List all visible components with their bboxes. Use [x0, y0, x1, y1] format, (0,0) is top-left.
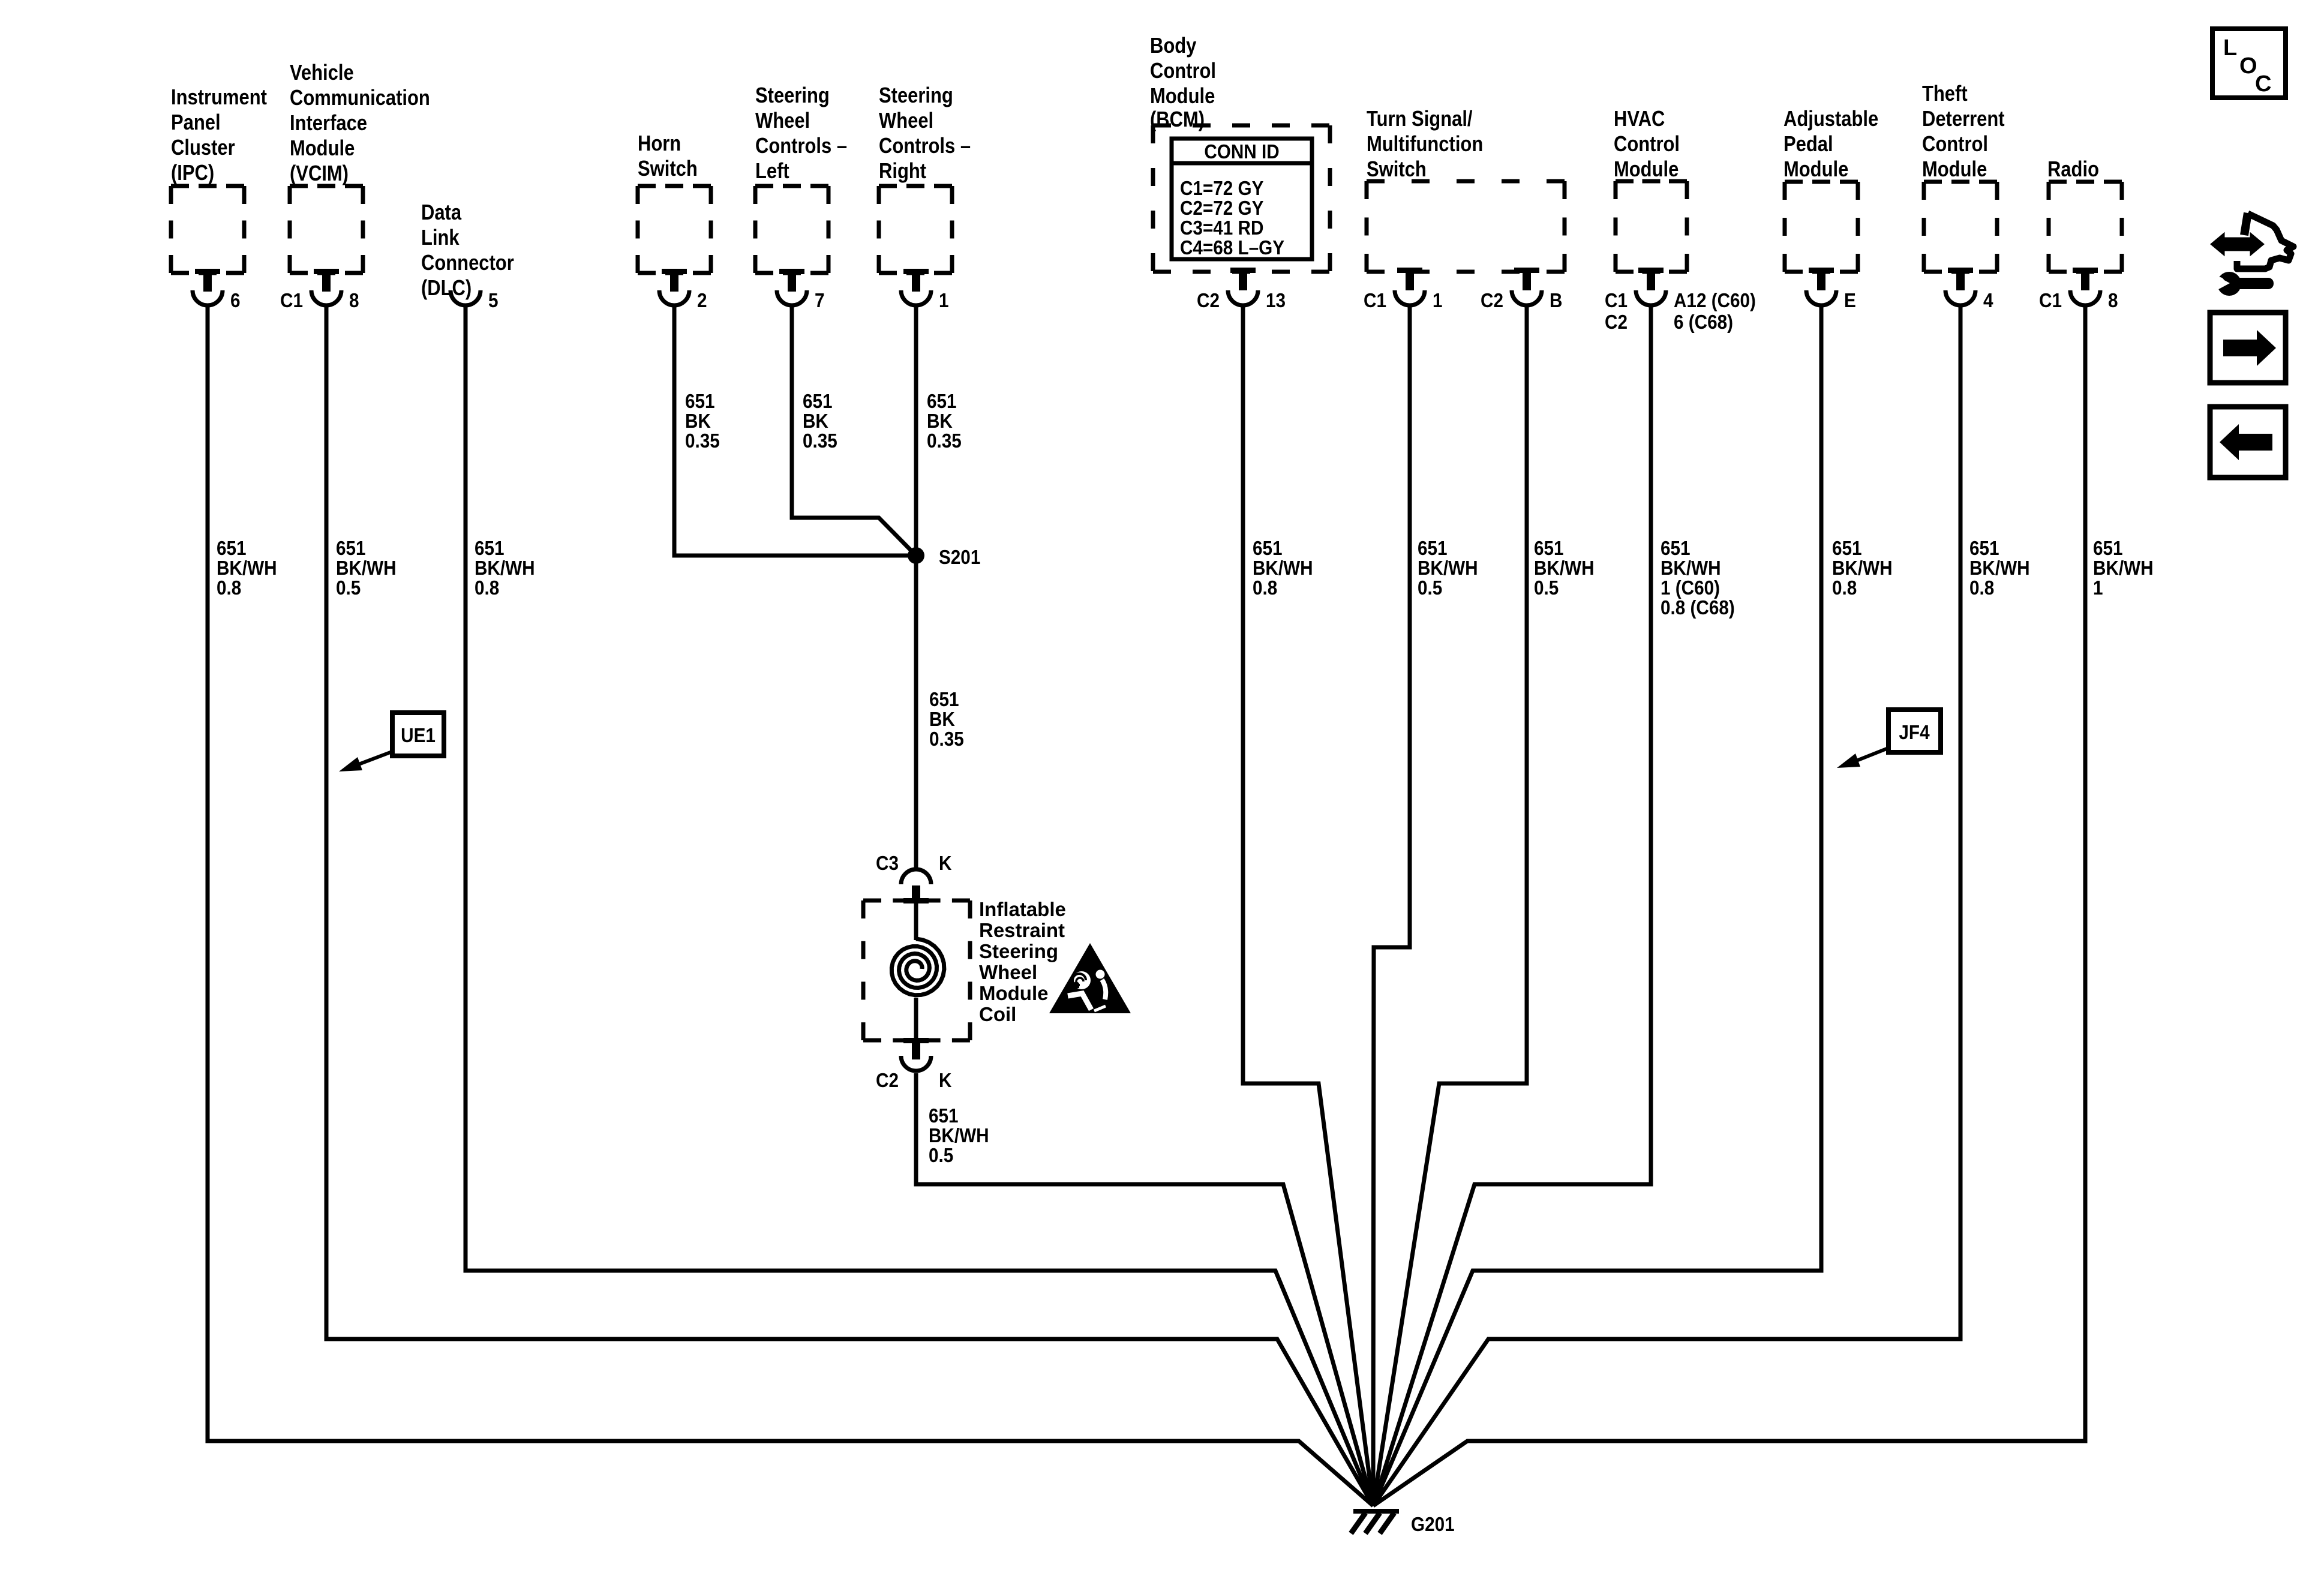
- svg-text:1: 1: [2093, 577, 2103, 599]
- svg-text:Instrument: Instrument: [171, 86, 267, 110]
- svg-text:651: 651: [929, 689, 959, 711]
- svg-text:BK: BK: [929, 709, 955, 731]
- svg-text:Control: Control: [1150, 59, 1216, 83]
- svg-text:C1: C1: [1364, 290, 1386, 312]
- svg-text:Module: Module: [979, 982, 1048, 1004]
- svg-text:0.35: 0.35: [927, 430, 962, 452]
- svg-text:Interface: Interface: [290, 112, 367, 136]
- svg-text:Data: Data: [421, 201, 461, 225]
- svg-text:C3: C3: [876, 852, 899, 875]
- svg-text:1 (C60): 1 (C60): [1661, 577, 1720, 599]
- label: Inflatable Restraint Steering Wheel Module Coil: [979, 898, 1066, 1025]
- svg-text:C4=68 L–GY: C4=68 L–GY: [1180, 237, 1284, 259]
- wire Adjustable Pedal to ground bus: [1373, 304, 1821, 1506]
- svg-text:Switch: Switch: [1367, 158, 1427, 182]
- svg-text:1: 1: [1433, 290, 1443, 312]
- wire label 651 BK/WH 0.8 (Adjustable Pedal): [1832, 538, 1893, 599]
- svg-text:0.35: 0.35: [803, 430, 837, 452]
- wire Theft Deterrent to ground bus: [1373, 304, 1960, 1506]
- svg-text:HVAC: HVAC: [1614, 107, 1665, 131]
- right arrow box: [2210, 313, 2286, 383]
- svg-text:BK/WH: BK/WH: [1418, 557, 1478, 580]
- LOC legend box: [2212, 29, 2286, 98]
- svg-text:BK: BK: [685, 410, 711, 433]
- svg-text:651: 651: [1534, 538, 1564, 560]
- svg-text:Pedal: Pedal: [1783, 133, 1833, 157]
- svg-text:Deterrent: Deterrent: [1922, 107, 2005, 131]
- label: Radio: [2047, 158, 2099, 182]
- module box: Instrument Panel Cluster (IPC): [171, 186, 244, 273]
- svg-text:Multifunction: Multifunction: [1367, 133, 1483, 157]
- svg-text:C1: C1: [2039, 290, 2062, 312]
- terminal SWC-Right pin 1: [901, 269, 949, 311]
- label: Turn Signal / Multifunction Switch: [1367, 107, 1483, 182]
- svg-text:651: 651: [927, 391, 957, 413]
- wire label 651 BK/WH 0.5 (VCIM): [336, 538, 397, 599]
- coil spiral: [891, 939, 944, 995]
- wire BCM to ground bus: [1243, 304, 1373, 1506]
- svg-text:BK/WH: BK/WH: [929, 1125, 989, 1147]
- wire DLC to ground bus: [466, 304, 1373, 1506]
- module box: Steering Wheel Controls - Left: [755, 186, 828, 273]
- wire label 651 BK 0.35 (SWC left): [803, 391, 837, 452]
- wire SWC-Right through S201 to C3: [914, 304, 918, 869]
- tag JF4 with arrow: [1837, 710, 1941, 768]
- svg-text:Radio: Radio: [2047, 158, 2099, 182]
- svg-text:Module: Module: [290, 137, 355, 161]
- svg-text:Module: Module: [1150, 85, 1215, 109]
- svg-text:C2: C2: [1481, 290, 1503, 312]
- svg-text:(DLC): (DLC): [421, 277, 472, 301]
- svg-text:Wheel: Wheel: [979, 961, 1037, 983]
- terminal Theft Deterrent pin 4: [1945, 268, 1993, 311]
- svg-text:Control: Control: [1922, 133, 1988, 157]
- svg-text:BK: BK: [927, 410, 953, 433]
- svg-text:BK/WH: BK/WH: [1969, 557, 2030, 580]
- wire Turn Signal C2 to ground: [1373, 304, 1527, 1506]
- svg-text:Link: Link: [421, 226, 460, 250]
- wire label 651 BK/WH 0.8 (IPC): [217, 538, 277, 599]
- terminal Horn Switch pin 2: [659, 269, 707, 311]
- svg-text:651: 651: [336, 538, 366, 560]
- svg-text:0.5: 0.5: [336, 577, 361, 599]
- svg-text:E: E: [1844, 290, 1856, 312]
- svg-text:G201: G201: [1411, 1514, 1455, 1536]
- svg-text:Connector: Connector: [421, 251, 514, 275]
- module box: Vehicle Communication Interface Module (VCIM): [290, 186, 363, 273]
- svg-text:8: 8: [2108, 290, 2118, 312]
- svg-text:Restraint: Restraint: [979, 919, 1065, 941]
- svg-text:Horn: Horn: [638, 132, 681, 156]
- svg-text:7: 7: [815, 290, 825, 312]
- svg-text:Steering: Steering: [755, 84, 830, 108]
- svg-text:C2: C2: [876, 1070, 899, 1092]
- svg-text:C3=41 RD: C3=41 RD: [1180, 217, 1263, 239]
- svg-text:Turn Signal/: Turn Signal/: [1367, 107, 1473, 131]
- module box: Body Control Module (BCM): [1153, 125, 1330, 272]
- terminal SWC-Left pin 7: [777, 269, 825, 311]
- svg-text:Coil: Coil: [979, 1003, 1016, 1025]
- terminal DLC pin 5: [451, 290, 499, 312]
- terminal IPC pin 6: [193, 269, 241, 311]
- wire label 651 BK/WH 0.8 (DLC): [475, 538, 535, 599]
- svg-text:Module: Module: [1783, 158, 1848, 182]
- svg-text:Left: Left: [755, 160, 789, 184]
- wire VCIM to ground bus: [326, 304, 1373, 1506]
- wire label 651 BK 0.35 (SWC right): [927, 391, 962, 452]
- label: Theft Deterrent Control Module: [1922, 82, 2005, 182]
- svg-text:Module: Module: [1614, 158, 1679, 182]
- wire label 651 BK/WH 1 (Radio): [2093, 538, 2154, 599]
- svg-text:4: 4: [1983, 290, 1993, 312]
- svg-text:Controls –: Controls –: [879, 134, 971, 158]
- terminal HVAC C1/C2 pins A12(C60)/6(C68): [1605, 268, 1756, 333]
- svg-text:651: 651: [1832, 538, 1862, 560]
- left arrow box: [2210, 407, 2286, 478]
- label: Instrument Panel Cluster (IPC): [171, 86, 267, 185]
- wire HVAC to ground bus: [1373, 304, 1651, 1506]
- svg-text:L: L: [2223, 35, 2237, 61]
- terminal Adjustable Pedal pin E: [1806, 268, 1856, 311]
- svg-text:BK/WH: BK/WH: [475, 557, 535, 580]
- svg-text:Wheel: Wheel: [879, 109, 933, 133]
- svg-text:651: 651: [1969, 538, 1999, 560]
- svg-text:0.35: 0.35: [685, 430, 720, 452]
- svg-text:Adjustable: Adjustable: [1783, 107, 1878, 131]
- module box: Theft Deterrent Control Module: [1924, 182, 1997, 272]
- module box: Turn Signal / Multifunction Switch: [1367, 181, 1565, 272]
- svg-text:0.5: 0.5: [929, 1145, 953, 1167]
- svg-text:0.8 (C68): 0.8 (C68): [1661, 597, 1735, 619]
- svg-text:C1=72 GY: C1=72 GY: [1180, 178, 1263, 200]
- svg-text:651: 651: [1253, 538, 1283, 560]
- svg-text:Panel: Panel: [171, 111, 221, 135]
- terminal Turn Signal C1 pin 1: [1364, 268, 1442, 311]
- svg-text:651: 651: [803, 391, 833, 413]
- module box: Adjustable Pedal Module: [1785, 182, 1858, 272]
- wire Horn Switch to S201: [674, 304, 916, 556]
- terminal BCM C2 pin 13: [1197, 268, 1286, 311]
- module box: Inflatable Restraint Steering Wheel Module Coil: [863, 900, 970, 1040]
- wire Radio to ground bus: [1373, 304, 2085, 1506]
- svg-text:Communication: Communication: [290, 86, 430, 110]
- connector C3 K (top of coil): [876, 852, 952, 903]
- wire through coil box: [914, 900, 918, 940]
- svg-text:13: 13: [1266, 290, 1286, 312]
- tag UE1 with arrow: [339, 713, 444, 772]
- svg-text:(BCM): (BCM): [1150, 108, 1205, 132]
- wire SWC-Left to S201: [792, 304, 916, 556]
- svg-text:CONN ID: CONN ID: [1204, 141, 1279, 163]
- svg-text:651: 651: [217, 538, 247, 560]
- ground G201: [1351, 1511, 1455, 1535]
- svg-text:C: C: [2255, 71, 2271, 97]
- node S201: [908, 547, 980, 569]
- svg-text:5: 5: [488, 290, 499, 312]
- svg-text:B: B: [1550, 290, 1562, 312]
- svg-text:Vehicle: Vehicle: [290, 61, 354, 85]
- svg-text:6: 6: [230, 290, 241, 312]
- wire IPC to ground bus: [208, 304, 1373, 1506]
- module box: Horn Switch: [638, 186, 711, 273]
- wire label 651 BK/WH 0.5 (coil): [929, 1105, 989, 1167]
- module box: HVAC Control Module: [1616, 181, 1687, 272]
- label: Data Link Connector (DLC): [421, 201, 514, 301]
- terminal Radio C1 pin 8: [2039, 268, 2118, 311]
- svg-text:UE1: UE1: [401, 725, 436, 747]
- wire coil to ground bus: [916, 1073, 1373, 1506]
- label: Body Control Module (BCM): [1150, 34, 1216, 132]
- svg-text:651: 651: [1661, 538, 1691, 560]
- svg-text:Controls –: Controls –: [755, 134, 847, 158]
- svg-text:651: 651: [475, 538, 505, 560]
- label: Horn Switch: [638, 132, 698, 181]
- svg-text:K: K: [939, 1070, 952, 1092]
- svg-text:Control: Control: [1614, 133, 1680, 157]
- svg-text:0.8: 0.8: [1969, 577, 1994, 599]
- CONN ID table: [1172, 139, 1312, 259]
- svg-text:K: K: [939, 852, 952, 875]
- svg-text:0.8: 0.8: [475, 577, 499, 599]
- svg-text:0.8: 0.8: [1253, 577, 1277, 599]
- svg-text:(IPC): (IPC): [171, 161, 214, 185]
- svg-text:651: 651: [1418, 538, 1448, 560]
- wire label 651 BK 0.35 (S201 to coil): [929, 689, 964, 751]
- vehicle + wrench icon: [2212, 213, 2293, 296]
- svg-text:C2: C2: [1605, 311, 1628, 334]
- svg-text:0.35: 0.35: [929, 728, 964, 751]
- label: Steering Wheel Controls - Right: [879, 84, 971, 184]
- svg-text:8: 8: [349, 290, 359, 312]
- svg-text:C2: C2: [1197, 290, 1220, 312]
- svg-text:Steering: Steering: [879, 84, 953, 108]
- svg-text:Module: Module: [1922, 158, 1987, 182]
- svg-text:BK/WH: BK/WH: [1661, 557, 1721, 580]
- label: Steering Wheel Controls - Left: [755, 84, 847, 184]
- connector C2 K (bottom of coil): [876, 1038, 952, 1091]
- terminal VCIM C1 pin 8: [280, 269, 359, 311]
- svg-text:Theft: Theft: [1922, 82, 1968, 106]
- wire label 651 BK 0.35 (horn): [685, 391, 720, 452]
- svg-text:Right: Right: [879, 160, 926, 184]
- svg-text:Inflatable: Inflatable: [979, 898, 1066, 920]
- svg-text:(VCIM): (VCIM): [290, 162, 349, 186]
- module box: Radio: [2049, 182, 2122, 272]
- svg-text:651: 651: [685, 391, 715, 413]
- wire label 651 BK/WH 0.8 (BCM): [1253, 538, 1313, 599]
- wire label 651 BK/WH 0.5 (Turn C1): [1418, 538, 1478, 599]
- svg-text:6 (C68): 6 (C68): [1674, 311, 1733, 334]
- wire Turn Signal C1 to ground: [1373, 304, 1410, 1506]
- svg-text:BK: BK: [803, 410, 828, 433]
- svg-text:651: 651: [929, 1105, 959, 1127]
- svg-text:C2=72 GY: C2=72 GY: [1180, 197, 1263, 220]
- svg-text:BK/WH: BK/WH: [336, 557, 397, 580]
- airbag warning triangle: [1049, 943, 1131, 1013]
- svg-text:S201: S201: [939, 547, 980, 569]
- label: HVAC Control Module: [1614, 107, 1680, 182]
- svg-text:2: 2: [697, 290, 707, 312]
- svg-text:651: 651: [2093, 538, 2123, 560]
- svg-text:BK/WH: BK/WH: [1534, 557, 1595, 580]
- svg-text:C1: C1: [280, 290, 303, 312]
- svg-text:BK/WH: BK/WH: [1253, 557, 1313, 580]
- svg-text:BK/WH: BK/WH: [1832, 557, 1893, 580]
- svg-text:BK/WH: BK/WH: [217, 557, 277, 580]
- module box: Steering Wheel Controls - Right: [879, 186, 952, 273]
- svg-text:C1: C1: [1605, 290, 1628, 312]
- svg-text:0.8: 0.8: [217, 577, 241, 599]
- svg-text:0.5: 0.5: [1418, 577, 1442, 599]
- svg-text:Steering: Steering: [979, 940, 1058, 962]
- svg-text:A12 (C60): A12 (C60): [1674, 290, 1756, 312]
- svg-text:JF4: JF4: [1899, 722, 1930, 744]
- label: Adjustable Pedal Module: [1783, 107, 1878, 182]
- svg-text:Body: Body: [1150, 34, 1197, 58]
- svg-text:1: 1: [939, 290, 949, 312]
- wire label 651 BK/WH 0.8 (Theft): [1969, 538, 2030, 599]
- svg-text:Cluster: Cluster: [171, 136, 235, 160]
- svg-text:0.5: 0.5: [1534, 577, 1559, 599]
- label: Vehicle Communication Interface Module (VCIM): [290, 61, 430, 186]
- svg-text:Switch: Switch: [638, 157, 698, 181]
- svg-text:BK/WH: BK/WH: [2093, 557, 2154, 580]
- wire label 651 BK/WH 1 (C60) 0.8 (C68) (HVAC): [1661, 538, 1735, 619]
- terminal Turn Signal C2 pin B: [1481, 268, 1562, 311]
- wire label 651 BK/WH 0.5 (Turn C2): [1534, 538, 1595, 599]
- svg-text:Wheel: Wheel: [755, 109, 810, 133]
- svg-text:0.8: 0.8: [1832, 577, 1857, 599]
